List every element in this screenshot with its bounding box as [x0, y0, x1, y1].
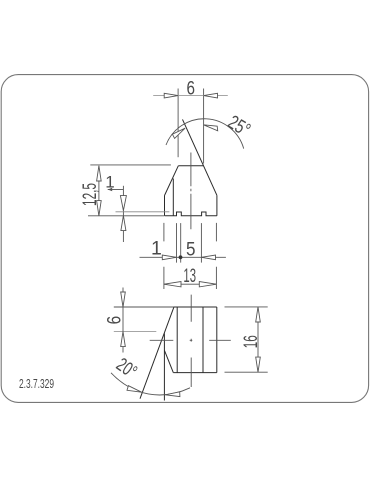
- dimension line: [98, 166, 100, 216]
- bottom edge: [173, 372, 217, 374]
- left edge: [164, 196, 166, 216]
- arrow right: [204, 93, 218, 98]
- svg-text:20°: 20°: [112, 354, 140, 383]
- svg-text:12,5: 12,5: [79, 183, 101, 206]
- left edge extension: [163, 223, 165, 289]
- arrow right outward: [199, 282, 216, 287]
- apex level extension: [114, 331, 157, 333]
- right face line (extended up for 25 deg dim): [183, 119, 217, 195]
- shelf tick: [108, 188, 113, 192]
- dimension line: [153, 95, 228, 97]
- arc: [166, 119, 244, 149]
- extension line right: [203, 89, 205, 164]
- inner line 2: [202, 307, 204, 373]
- svg-text:25°: 25°: [224, 111, 254, 141]
- top edge: [178, 165, 203, 167]
- svg-text:1: 1: [105, 172, 114, 191]
- dimension 20 deg: [111, 373, 190, 397]
- arrow on slant: [172, 128, 185, 138]
- svg-text:2.3.7.329: 2.3.7.329: [19, 377, 54, 391]
- top extension: [114, 306, 174, 308]
- dimension 12,5 (left): [88, 165, 171, 216]
- svg-text:6: 6: [104, 316, 126, 325]
- arrow up: [97, 166, 102, 181]
- notch2 left extension: [200, 223, 202, 263]
- lower left face: [164, 350, 173, 372]
- arrow up: [121, 216, 126, 231]
- dimension 25 deg: [166, 119, 244, 149]
- right edge extension: [215, 223, 217, 289]
- arrow up (below): [121, 332, 126, 347]
- arc: [111, 373, 190, 395]
- dimension line: [257, 307, 259, 372]
- arrow at slant: [127, 386, 142, 393]
- svg-text:5: 5: [186, 238, 196, 260]
- svg-text:13: 13: [183, 265, 196, 287]
- extension line left: [177, 89, 179, 158]
- arrow on vertical: [204, 125, 218, 131]
- arrow right-pointing: [162, 255, 176, 260]
- extension top: [225, 306, 268, 308]
- right edge: [216, 195, 218, 216]
- arrow left outward: [164, 282, 181, 287]
- apex vertical + extension: [163, 333, 165, 400]
- text shelf: [108, 189, 124, 191]
- svg-text:6: 6: [187, 78, 196, 100]
- arrow left-pointing: [201, 255, 215, 260]
- dimension line 1 / 5: [140, 255, 226, 260]
- arrow down: [256, 357, 261, 372]
- inner silhouette line: [172, 179, 174, 216]
- 20 deg slant through left face: [140, 307, 174, 399]
- arrow at vertical: [165, 392, 180, 397]
- inner line 1: [176, 307, 178, 373]
- svg-text:1: 1: [151, 237, 162, 259]
- center line upper view: [190, 153, 192, 230]
- svg-text:16: 16: [240, 335, 262, 348]
- extension bottom: [225, 371, 268, 373]
- right edge: [216, 307, 218, 373]
- top edge: [173, 306, 217, 308]
- arrow down (above): [121, 292, 126, 307]
- sheet frame: [1, 75, 368, 403]
- dimension 13: [164, 282, 217, 287]
- arrow down: [97, 201, 102, 216]
- arrow left: [164, 93, 178, 98]
- arrow down: [120, 196, 126, 211]
- dimension line vertical: [122, 288, 124, 353]
- notch edge extensions: [176, 223, 178, 263]
- extension lines below upper view: [164, 223, 217, 289]
- arrow up: [256, 307, 261, 322]
- center lines lower view: [150, 295, 231, 387]
- dimension 16 (right): [225, 307, 268, 372]
- extension of notch top: [116, 211, 170, 213]
- terminator dot: [179, 255, 183, 259]
- extension bottom: [88, 215, 164, 217]
- dimension 6 (lower view): [114, 288, 174, 353]
- left face: [165, 166, 179, 196]
- dimension 6 (top): [153, 89, 228, 164]
- extension top: [90, 164, 171, 166]
- leader vertical: [122, 186, 124, 242]
- bottom edge with two notches: [165, 212, 217, 216]
- dimension 1 (notch height, left): [108, 186, 170, 242]
